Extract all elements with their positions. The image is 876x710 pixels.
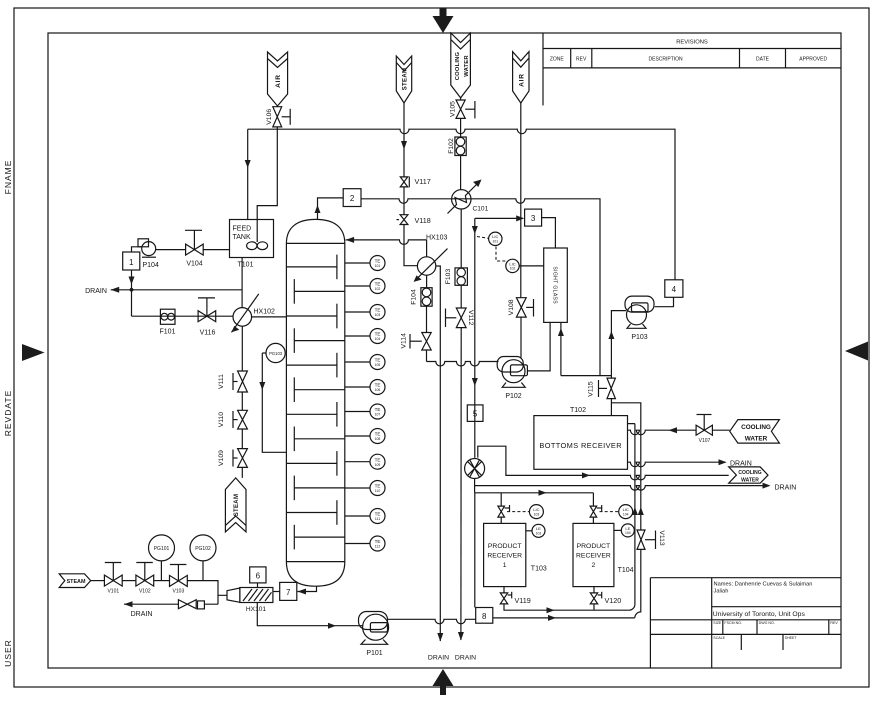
temperature element TE108 — [345, 429, 385, 444]
svg-text:TE: TE — [375, 512, 381, 517]
svg-text:103: 103 — [534, 512, 540, 516]
svg-text:COOLING: COOLING — [741, 424, 771, 431]
wire F103 to V112 — [460, 285, 462, 308]
svg-text:TE: TE — [375, 332, 381, 337]
svg-text:V102: V102 — [139, 589, 151, 595]
wire V114 to P102 suction header with dips — [427, 350, 499, 366]
svg-text:V116: V116 — [200, 330, 216, 337]
valve V117 — [400, 177, 430, 188]
svg-text:V106: V106 — [266, 109, 273, 125]
wire V115 branch to riser B — [611, 403, 640, 530]
pump P104 — [138, 239, 159, 269]
svg-text:V112: V112 — [467, 310, 474, 326]
svg-text:COOLING: COOLING — [738, 470, 761, 476]
level controller LC101 — [477, 232, 502, 245]
wire feed tank outlet down to HX102 — [241, 258, 243, 308]
temperature element TE109 — [345, 454, 385, 469]
svg-text:5: 5 — [473, 410, 478, 419]
svg-text:Jaliah: Jaliah — [714, 588, 729, 594]
wire column overhead vapor to node 2 — [318, 198, 344, 220]
product receiver T104 — [573, 523, 634, 586]
wire V113 riser B lower — [635, 549, 641, 618]
svg-text:V117: V117 — [415, 177, 431, 186]
wire steam riser top — [403, 103, 405, 177]
wire box1 to P104 — [132, 247, 142, 252]
wire HX103 right port down (drain riser) — [436, 266, 441, 641]
drain wire 2 — [475, 486, 769, 491]
wire V101 to V102 — [122, 580, 136, 582]
svg-text:DRAIN: DRAIN — [131, 611, 153, 618]
revisions table — [543, 33, 841, 105]
valve trap drain — [178, 600, 196, 609]
svg-text:1: 1 — [129, 258, 134, 267]
level element LE104 — [614, 524, 634, 537]
svg-text:DRAIN: DRAIN — [85, 288, 107, 295]
svg-text:REVISIONS: REVISIONS — [676, 40, 708, 46]
wire C101 bottom to F103 — [460, 209, 462, 268]
wire air utility header with crossing dips — [248, 127, 675, 280]
wire V102 to V103 with PG101 tee — [154, 580, 170, 582]
valve V103 — [170, 565, 188, 595]
svg-text:Names: Danhenrie Cuevas & Sula: Names: Danhenrie Cuevas & Sulaiman — [714, 581, 813, 587]
wire T104 top drop — [592, 493, 594, 506]
svg-text:TE: TE — [375, 432, 381, 437]
temperature element TE105 — [345, 355, 385, 370]
temperature element TE106 — [345, 380, 385, 395]
wire receiver bottoms header to riser A — [504, 604, 629, 610]
border marker arrow bottom — [433, 669, 454, 695]
svg-text:V109: V109 — [218, 450, 225, 466]
pump P102 — [497, 357, 527, 400]
svg-text:LIC: LIC — [623, 507, 629, 512]
wire condensate connector riser — [474, 218, 476, 405]
wire HX101 bottom to P101 suction — [257, 603, 363, 626]
valve T103 inlet — [498, 505, 510, 517]
svg-text:F104: F104 — [411, 289, 418, 305]
reboiler HX101 — [227, 588, 273, 614]
wire V109 to steam banner — [241, 467, 243, 478]
title block — [650, 578, 841, 668]
svg-text:T104: T104 — [618, 567, 634, 574]
node box 7 — [273, 582, 297, 600]
svg-text:V115: V115 — [588, 381, 595, 397]
pressure gauge PG102 — [190, 535, 216, 581]
valve V104 — [185, 230, 203, 267]
svg-text:HX101: HX101 — [246, 606, 266, 613]
svg-text:LIC: LIC — [533, 507, 539, 512]
drain arrow left — [111, 287, 120, 293]
wire F101 V116 feed line — [132, 315, 234, 317]
wire HX103 bottom to F104 — [426, 275, 428, 288]
column tray 9 — [286, 451, 337, 476]
wire air riser to V108 — [520, 103, 522, 298]
svg-text:RECEIVER: RECEIVER — [487, 553, 522, 560]
svg-text:102: 102 — [375, 287, 381, 291]
wire V103 to HX101 inlet with PG102 tee — [187, 581, 227, 596]
banner COOLING WATER (top) — [451, 33, 471, 98]
border marker arrow right — [845, 342, 868, 361]
level controller LC104 — [600, 505, 633, 519]
svg-text:ZONE: ZONE — [550, 56, 565, 62]
level controller LC102 — [496, 247, 544, 273]
wire HX102 to column feed — [252, 316, 287, 318]
column tray 7 — [286, 402, 337, 427]
bottoms receiver T102 — [534, 407, 628, 469]
column tray 11 — [286, 500, 337, 525]
svg-text:F102: F102 — [448, 138, 455, 154]
reflux return wire HX103 to column — [346, 240, 427, 257]
temperature element TE110 — [345, 481, 385, 496]
valve V106 — [266, 107, 290, 127]
valve V108 — [508, 298, 534, 317]
svg-text:V101: V101 — [107, 589, 119, 595]
svg-text:LIC: LIC — [509, 261, 515, 266]
valve V115 — [588, 376, 616, 399]
wire valve to T103 — [500, 517, 502, 523]
svg-text:P104: P104 — [143, 262, 159, 269]
wire P103 suction riser — [611, 311, 626, 376]
svg-text:DWG NO.: DWG NO. — [759, 621, 775, 625]
svg-text:USER: USER — [3, 639, 13, 667]
wire V117 to V118 — [403, 187, 405, 215]
svg-text:111: 111 — [375, 517, 380, 521]
steam trap drain branch — [204, 595, 218, 604]
wire V112 down to bottom drain — [460, 328, 462, 640]
svg-text:WATER: WATER — [464, 55, 470, 77]
valve V120 — [590, 587, 621, 605]
svg-text:DESCRIPTION: DESCRIPTION — [649, 56, 684, 62]
svg-text:104: 104 — [623, 512, 629, 516]
node box 8 — [476, 608, 493, 624]
svg-text:V105: V105 — [449, 101, 456, 117]
svg-text:103: 103 — [536, 532, 542, 536]
border marker arrow top — [433, 8, 454, 33]
svg-text:DRAIN: DRAIN — [428, 655, 449, 662]
svg-text:PG103: PG103 — [269, 351, 283, 356]
svg-text:T102: T102 — [570, 407, 586, 414]
svg-text:STEAM: STEAM — [234, 494, 240, 517]
svg-text:HX103: HX103 — [426, 235, 448, 242]
svg-text:107: 107 — [375, 413, 381, 417]
svg-text:BOTTOMS RECEIVER: BOTTOMS RECEIVER — [539, 441, 622, 450]
svg-text:LIC: LIC — [492, 234, 498, 239]
temperature element TE107 — [345, 404, 385, 419]
wire cooling water banner to V105 — [460, 98, 462, 100]
temperature element TE112 — [345, 536, 385, 551]
svg-text:2: 2 — [350, 194, 355, 203]
filter F102 — [448, 137, 466, 156]
wire sight glass bottom right to condensate header — [560, 322, 562, 375]
svg-text:101: 101 — [375, 264, 381, 268]
filter F104 — [411, 288, 432, 307]
column tray 12 — [294, 525, 345, 550]
wire V104 to feed tank — [203, 249, 229, 251]
wire V110 to V109 — [241, 429, 243, 449]
node box 1 — [123, 252, 140, 270]
wire steam banner to V101 — [91, 580, 105, 582]
wire V108 into P102 casing — [520, 317, 522, 357]
pump P103 — [625, 296, 654, 341]
svg-text:103: 103 — [375, 313, 381, 317]
heat exchanger HX102 — [232, 294, 276, 333]
svg-text:PRODUCT: PRODUCT — [488, 543, 522, 550]
wire condensate header to V115 tee — [561, 375, 612, 377]
column tray 3 — [286, 304, 337, 329]
svg-text:TE: TE — [375, 407, 381, 412]
temperature element TE103 — [345, 305, 385, 320]
wire T103 top drop — [500, 493, 502, 506]
valve V112 — [446, 308, 474, 328]
svg-text:8: 8 — [482, 612, 487, 621]
svg-text:106: 106 — [375, 388, 381, 392]
svg-text:WATER: WATER — [745, 435, 768, 442]
valve V111 — [218, 371, 248, 392]
valve T104 inlet — [590, 505, 602, 517]
sight glass — [544, 248, 568, 322]
svg-text:LE: LE — [625, 526, 630, 531]
svg-text:V114: V114 — [400, 333, 407, 349]
svg-text:V103: V103 — [173, 589, 185, 595]
column tray 10 — [294, 476, 345, 501]
svg-text:108: 108 — [375, 437, 381, 441]
column tray 4 — [294, 328, 345, 353]
valve V105 — [449, 100, 475, 118]
node box 6 — [250, 567, 266, 588]
valve V109 — [218, 449, 248, 468]
condenser C101 — [448, 180, 489, 214]
wire air to feed tank — [247, 129, 249, 219]
svg-text:TE: TE — [375, 358, 381, 363]
svg-text:101: 101 — [492, 240, 498, 244]
svg-text:AIR: AIR — [518, 73, 525, 87]
svg-text:REVDATE: REVDATE — [3, 390, 13, 437]
wire cooler to receiver header — [475, 479, 594, 493]
svg-text:V104: V104 — [186, 261, 202, 268]
svg-text:102: 102 — [510, 267, 516, 271]
distillation column T-100 shell — [286, 219, 344, 586]
svg-text:109: 109 — [375, 463, 381, 467]
wire air dip tube to feed tank — [257, 129, 277, 219]
svg-text:AIR: AIR — [275, 74, 282, 88]
svg-text:112: 112 — [375, 545, 381, 549]
valve V102 — [136, 563, 154, 595]
banner COOLING WATER (inlet right) — [712, 420, 779, 444]
wire V105 to F102 — [460, 118, 462, 137]
cooling water inlet wire to T102 — [628, 430, 697, 435]
wire PG103 riser to column — [262, 353, 286, 452]
svg-text:REV: REV — [830, 621, 838, 625]
svg-text:104: 104 — [625, 531, 631, 535]
svg-text:APPROVED: APPROVED — [799, 56, 827, 62]
svg-text:6: 6 — [256, 571, 261, 580]
valve V114 — [400, 333, 431, 351]
wire valve to T104 — [592, 517, 594, 523]
node box 3 feeder — [475, 217, 523, 219]
steam trap — [198, 601, 205, 609]
svg-text:PRODUCT: PRODUCT — [577, 543, 611, 550]
svg-text:P101: P101 — [366, 650, 382, 657]
level controller LC103 — [507, 505, 543, 519]
level element LE103 — [526, 524, 545, 537]
svg-text:V108: V108 — [508, 299, 515, 315]
column tray 2 — [294, 279, 345, 304]
svg-text:TE: TE — [375, 539, 381, 544]
column tray 8 — [294, 427, 345, 452]
wire air banner to V106 — [276, 105, 278, 108]
svg-text:V110: V110 — [218, 412, 225, 428]
wire vapor line box2 to C101 to right riser — [361, 199, 600, 376]
T102 side nozzle — [628, 424, 635, 611]
node box 4 — [665, 280, 683, 298]
heat exchanger HX103 — [414, 235, 448, 282]
svg-text:STEAM: STEAM — [67, 579, 86, 585]
pump P101 — [359, 612, 389, 657]
wire F102 to C101 top — [460, 156, 462, 190]
pressure gauge PG103 — [262, 343, 285, 362]
banner COOLING WATER (outlet small) — [729, 467, 768, 484]
svg-text:DRAIN: DRAIN — [775, 484, 797, 491]
svg-text:T103: T103 — [531, 566, 547, 573]
wire drain header to tank outlet tee — [111, 289, 242, 291]
temperature element TE111 — [345, 509, 385, 524]
banner STEAM (bottom left supply) — [59, 574, 90, 588]
svg-text:DRAIN: DRAIN — [455, 655, 476, 662]
wire header junction down to box 8 — [474, 493, 476, 608]
wire F104 to V114 — [426, 306, 428, 332]
node box 2 — [343, 189, 361, 207]
svg-text:TE: TE — [375, 457, 381, 462]
svg-text:F101: F101 — [160, 329, 176, 336]
valve V116 — [198, 298, 216, 337]
node drain junction — [130, 288, 134, 292]
svg-text:V120: V120 — [605, 596, 622, 605]
svg-text:TANK: TANK — [233, 234, 251, 241]
column tray 5 — [286, 353, 337, 378]
svg-text:REV: REV — [576, 56, 587, 62]
svg-text:3: 3 — [531, 214, 536, 223]
wire box3 to sight glass top — [542, 218, 556, 248]
svg-text:WATER: WATER — [741, 478, 759, 484]
drain wire 1 from T102 — [628, 462, 726, 467]
filter F101 — [160, 309, 176, 335]
wire V115 to T102 top — [610, 399, 612, 416]
svg-text:COOLING: COOLING — [455, 51, 461, 80]
wire box1 down to drain junction — [131, 270, 133, 316]
svg-text:RECEIVER: RECEIVER — [576, 553, 611, 560]
product cooler HX104 — [465, 405, 485, 479]
svg-text:V118: V118 — [415, 216, 431, 225]
feed tank T101 — [230, 220, 274, 269]
svg-text:SCALE: SCALE — [713, 636, 725, 640]
wire P101 discharge to box 8 — [388, 619, 476, 624]
temperature element TE104 — [345, 329, 385, 344]
svg-text:FSCM NO.: FSCM NO. — [724, 621, 742, 625]
svg-text:DATE: DATE — [756, 56, 770, 62]
valve V118 — [397, 215, 431, 226]
svg-text:PG101: PG101 — [154, 546, 170, 552]
svg-text:TE: TE — [375, 282, 381, 287]
wire V118 down to HX103 inlet — [404, 225, 417, 266]
valve V107 — [696, 415, 712, 444]
temperature element TE102 — [345, 279, 385, 294]
svg-text:SHEET: SHEET — [785, 636, 798, 640]
svg-text:TE: TE — [375, 383, 381, 388]
wire V111 to V110 — [241, 392, 243, 410]
banner STEAM (bottom riser) — [225, 478, 246, 532]
svg-text:LE: LE — [536, 526, 541, 531]
svg-text:SIZE: SIZE — [713, 621, 722, 625]
banner AIR (right) — [513, 52, 529, 103]
svg-text:V113: V113 — [658, 530, 665, 546]
temperature element TE101 — [345, 256, 385, 271]
node box 5 — [467, 405, 483, 422]
svg-text:PG102: PG102 — [195, 546, 211, 552]
svg-text:104: 104 — [375, 337, 381, 341]
svg-text:V107: V107 — [699, 438, 711, 444]
svg-text:HX102: HX102 — [254, 309, 276, 316]
banner AIR (top left) — [268, 52, 288, 106]
border marker arrow left — [22, 344, 45, 361]
wire HX102 bottom to V111 steam stack — [241, 326, 243, 371]
svg-text:STEAM: STEAM — [402, 68, 408, 91]
wire box8 header to riser B — [493, 617, 635, 619]
svg-text:C101: C101 — [473, 206, 489, 213]
svg-text:4: 4 — [672, 285, 677, 294]
svg-text:110: 110 — [375, 489, 381, 493]
wire column bottoms to box 7 — [298, 586, 317, 591]
wire trap to drain — [124, 603, 178, 605]
valve V110 — [218, 410, 248, 429]
svg-text:105: 105 — [375, 363, 381, 367]
valve V101 — [104, 563, 122, 595]
node box 3 — [525, 209, 542, 226]
svg-text:TE: TE — [375, 484, 381, 489]
product receiver T103 — [484, 523, 547, 586]
svg-text:FNAME: FNAME — [3, 160, 13, 195]
wire P103 discharge to node 4 — [655, 297, 674, 306]
svg-text:TE: TE — [375, 308, 381, 313]
svg-text:TE: TE — [375, 259, 381, 264]
svg-text:7: 7 — [286, 588, 291, 597]
wire P104 to V104 — [156, 249, 186, 251]
column tray 6 — [294, 377, 345, 402]
svg-text:V111: V111 — [218, 374, 225, 389]
column tray 1 — [286, 255, 337, 280]
svg-text:T101: T101 — [238, 262, 254, 269]
svg-text:P102: P102 — [505, 393, 521, 400]
wire sight glass bottom left to P102 discharge — [528, 322, 550, 371]
valve V113 — [637, 530, 665, 549]
svg-text:P103: P103 — [631, 334, 647, 341]
filter F103 — [445, 268, 467, 285]
svg-text:FEED: FEED — [233, 226, 252, 233]
svg-text:SIGHT GLASS: SIGHT GLASS — [552, 266, 558, 304]
svg-text:2: 2 — [592, 562, 596, 569]
svg-text:1: 1 — [503, 562, 507, 569]
svg-text:University of Toronto, Unit Op: University of Toronto, Unit Ops — [713, 611, 806, 618]
cooling water outlet wire from cooler hook — [478, 446, 729, 480]
valve V119 — [500, 587, 530, 606]
svg-text:F103: F103 — [445, 269, 452, 285]
banner STEAM (top) — [396, 56, 411, 103]
svg-text:V119: V119 — [515, 596, 531, 605]
pressure gauge PG101 — [149, 535, 175, 581]
